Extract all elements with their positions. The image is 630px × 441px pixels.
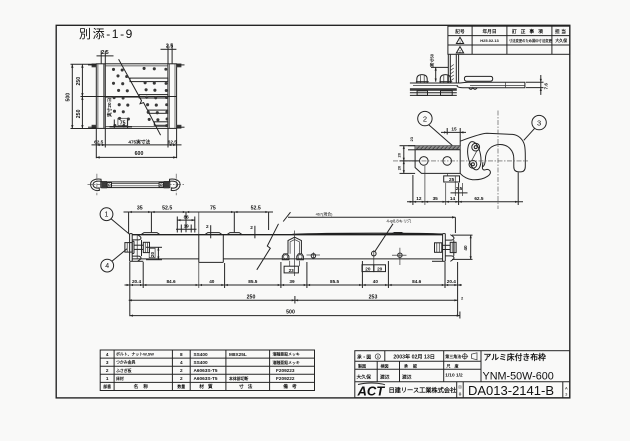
svg-text:253: 253 — [369, 294, 378, 300]
svg-text:85.5: 85.5 — [248, 279, 258, 284]
svg-text:500: 500 — [286, 310, 295, 316]
balloon 1 — [100, 208, 130, 235]
company name — [389, 387, 458, 395]
dim 467(現合) — [283, 211, 455, 233]
svg-text:35: 35 — [137, 206, 143, 212]
plate top dim 2.5 left — [97, 50, 114, 64]
center catch arch — [288, 231, 301, 277]
svg-text:1: 1 — [106, 376, 109, 381]
svg-text:名称: 名称 — [134, 383, 153, 390]
svg-text:40: 40 — [209, 279, 215, 284]
hook slotted link plate — [466, 141, 483, 171]
plate rotated label 実寸203 — [106, 97, 113, 117]
svg-text:20: 20 — [365, 266, 371, 271]
left fitting dim 20 — [146, 247, 162, 259]
svg-text:1/10 1/2: 1/10 1/2 — [445, 373, 463, 379]
title block product name — [483, 352, 554, 383]
svg-text:3: 3 — [565, 392, 568, 397]
sheet size A3 — [565, 386, 568, 397]
svg-text:M8X25L: M8X25L — [229, 352, 247, 357]
plate holes — [112, 67, 169, 128]
svg-text:20: 20 — [397, 152, 402, 157]
rivet hole right with leader 4-φ8.8キリ穴 — [372, 218, 413, 257]
svg-text:62.5: 62.5 — [474, 196, 484, 201]
svg-text:4-φ8.8キリ穴: 4-φ8.8キリ穴 — [387, 218, 413, 225]
company logo ACT — [357, 383, 386, 398]
svg-text:1: 1 — [459, 40, 461, 44]
balloon 3 — [524, 115, 547, 140]
svg-text:2: 2 — [250, 225, 253, 230]
hook centerlines — [393, 111, 528, 210]
hook dim 15 — [441, 127, 466, 146]
svg-text:2: 2 — [461, 295, 464, 300]
document title 別添-1-9 — [79, 27, 134, 41]
svg-text:1: 1 — [105, 212, 109, 219]
svg-text:250: 250 — [76, 109, 82, 118]
svg-text:467(現合): 467(現合) — [316, 211, 334, 216]
hook detail bracket plate — [415, 146, 460, 174]
svg-text:製図: 製図 — [357, 362, 366, 368]
top view right clamp — [159, 181, 169, 188]
svg-text:部番: 部番 — [103, 384, 111, 389]
svg-text:20.4: 20.4 — [447, 279, 457, 284]
hook dims 20/20 left — [397, 146, 420, 174]
svg-text:20.4: 20.4 — [132, 279, 142, 284]
svg-text:250: 250 — [247, 294, 256, 300]
svg-text:3: 3 — [106, 360, 109, 365]
svg-text:寸法変更のため図中寸法変更: 寸法変更のため図中寸法変更 — [509, 38, 553, 43]
svg-text:20: 20 — [150, 251, 155, 257]
rivet hole far right — [392, 248, 407, 265]
svg-text:アルミ床付き布枠: アルミ床付き布枠 — [484, 352, 546, 362]
svg-text:52.5: 52.5 — [251, 206, 261, 212]
svg-text:訂正事項: 訂正事項 — [512, 28, 547, 35]
svg-text:DA013-2141-B: DA013-2141-B — [468, 383, 554, 398]
revision row 1 — [456, 37, 568, 44]
svg-text:2.5: 2.5 — [456, 186, 463, 191]
title block row1 — [357, 352, 477, 360]
svg-text:40: 40 — [373, 279, 379, 284]
title block row3 names — [357, 373, 463, 381]
svg-text:寸法: 寸法 — [239, 383, 256, 390]
svg-text:4: 4 — [180, 360, 183, 365]
border frame — [56, 25, 570, 398]
svg-text:YNM-50W-600: YNM-50W-600 — [483, 371, 554, 383]
title block grid — [355, 351, 570, 398]
svg-text:25: 25 — [449, 177, 455, 182]
svg-text:39: 39 — [289, 279, 295, 284]
svg-text:20: 20 — [397, 165, 402, 170]
svg-text:85.5: 85.5 — [330, 279, 340, 284]
side view vertical frame member — [448, 55, 458, 83]
svg-text:実寸50: 実寸50 — [429, 53, 436, 67]
svg-text:実寸20ヨ: 実寸20ヨ — [106, 97, 113, 117]
top view left hook — [88, 174, 107, 195]
svg-text:14: 14 — [450, 196, 456, 201]
svg-text:大久保: 大久保 — [555, 37, 568, 43]
side view vertical dim 実寸50 — [429, 53, 449, 81]
svg-text:475実寸法: 475実寸法 — [128, 138, 150, 145]
svg-text:図: 図 — [458, 385, 461, 389]
balloon 2 — [418, 111, 453, 145]
svg-text:ふさぎ板: ふさぎ板 — [116, 368, 132, 373]
side view bolt 2 — [439, 75, 452, 83]
svg-text:2.5: 2.5 — [101, 50, 108, 56]
svg-text:床材: 床材 — [115, 376, 124, 381]
svg-text:7.6: 7.6 — [544, 83, 549, 90]
dim 20 20 boxes — [362, 256, 386, 272]
svg-text:数量: 数量 — [176, 384, 185, 389]
hook bolts — [469, 143, 480, 168]
svg-text:備考: 備考 — [283, 383, 300, 390]
svg-text:84.6: 84.6 — [166, 279, 176, 284]
parts table row 1 — [106, 376, 295, 381]
thickness labels 2 — [206, 224, 255, 238]
svg-text:40: 40 — [463, 245, 468, 251]
svg-text:F209223: F209223 — [276, 368, 295, 373]
svg-text:溶融亜鉛メッキ: 溶融亜鉛メッキ — [273, 352, 300, 357]
plate top dim 2.5 right — [161, 44, 177, 64]
parts table grid — [100, 350, 314, 391]
revision table — [448, 26, 570, 54]
side view strip right — [457, 76, 525, 89]
svg-text:500: 500 — [66, 93, 72, 102]
hook detail bracket holes — [420, 157, 452, 166]
hook dim 23 rotated — [408, 136, 415, 150]
left end bolt and nuts — [125, 241, 150, 253]
svg-text:ボルト、ナットW,SW: ボルト、ナットW,SW — [116, 352, 154, 357]
svg-text:A6063S-T5: A6063S-T5 — [194, 376, 218, 381]
elevation top dim row 35/52.5/75/52.5 — [124, 206, 274, 235]
revision row 2 — [456, 47, 463, 54]
balloon 4 — [101, 249, 127, 272]
svg-text:35: 35 — [433, 196, 439, 201]
elevation bottom dim row1 — [125, 261, 463, 316]
elevation bottom dim row2 250/253 — [129, 294, 464, 303]
svg-text:4: 4 — [106, 352, 109, 357]
plate dim 75 — [110, 118, 133, 128]
parts table header — [103, 383, 300, 390]
svg-text:4: 4 — [105, 263, 109, 270]
svg-text:別添-1-9: 別添-1-9 — [79, 27, 134, 41]
svg-text:2003年 02月 13日: 2003年 02月 13日 — [393, 352, 435, 360]
svg-text:承認: 承認 — [403, 362, 422, 368]
side view bar plates — [410, 83, 460, 95]
parts table row 2 — [106, 368, 295, 373]
svg-text:75: 75 — [210, 206, 216, 212]
svg-text:2: 2 — [106, 368, 109, 373]
svg-text:19: 19 — [184, 224, 190, 229]
elevation beam body — [132, 235, 443, 259]
svg-text:250: 250 — [76, 77, 82, 86]
elevation beam top bumps — [141, 233, 443, 235]
center catch bolts — [282, 254, 303, 260]
svg-text:承・図: 承・図 — [357, 353, 371, 360]
hook dim 25 boxed — [444, 173, 460, 182]
svg-text:75: 75 — [120, 120, 126, 126]
top view right hook — [167, 174, 186, 195]
svg-text:F209222: F209222 — [276, 376, 295, 381]
svg-text:2: 2 — [459, 49, 461, 53]
svg-text:62.5: 62.5 — [94, 139, 104, 144]
svg-text:第三角法: 第三角法 — [445, 353, 461, 359]
svg-text:SS400: SS400 — [194, 360, 208, 365]
plate left dims 250/250/500 — [66, 64, 97, 128]
dim 86 and 19 — [176, 214, 197, 232]
center dim 23 — [284, 261, 299, 273]
svg-text:SS400: SS400 — [194, 352, 208, 357]
svg-text:大久保: 大久保 — [357, 374, 372, 381]
svg-text:2: 2 — [423, 114, 427, 123]
svg-text:15: 15 — [451, 127, 457, 132]
svg-text:62.5: 62.5 — [168, 139, 178, 144]
plate bottom dim 600 — [96, 151, 176, 158]
elevation bottom notch box — [199, 235, 224, 263]
svg-text:600: 600 — [135, 151, 144, 157]
hook bottom dims 12/35/14/62.5 — [407, 166, 523, 205]
svg-text:3: 3 — [537, 118, 541, 127]
svg-text:52.5: 52.5 — [162, 206, 172, 212]
svg-text:86: 86 — [184, 214, 190, 219]
svg-text:8: 8 — [377, 355, 379, 359]
side view bolt 1 — [416, 75, 429, 83]
hook body — [460, 133, 525, 179]
parts table row 3 — [106, 360, 300, 365]
svg-text:渡辺: 渡辺 — [402, 374, 412, 381]
svg-text:本体部切断: 本体部切断 — [229, 376, 249, 381]
svg-text:ACT: ACT — [357, 384, 386, 399]
svg-text:検図: 検図 — [381, 362, 389, 368]
svg-text:23: 23 — [289, 268, 295, 273]
left end bracket — [130, 234, 144, 262]
rivet hole left — [307, 252, 321, 259]
top assembly view bar — [101, 182, 170, 188]
svg-text:A6063S-T5: A6063S-T5 — [194, 368, 218, 373]
plate diagonal break line — [119, 59, 161, 135]
svg-text:12: 12 — [416, 196, 422, 201]
svg-text:23: 23 — [409, 136, 414, 141]
svg-text:2: 2 — [180, 376, 183, 381]
right end bracket and clamp — [432, 234, 454, 262]
plate bottom dims 62.5 / 475 / 62.5 — [92, 129, 182, 159]
svg-text:尺度: 尺度 — [447, 362, 463, 368]
svg-text:2: 2 — [206, 224, 209, 229]
svg-text:日建リース工業株式会社: 日建リース工業株式会社 — [389, 387, 458, 395]
title block row2 headers — [357, 362, 463, 368]
drawing number cell — [458, 383, 554, 398]
svg-text:A: A — [565, 386, 568, 391]
svg-text:84.6: 84.6 — [412, 279, 422, 284]
svg-text:2: 2 — [180, 368, 183, 373]
elevation bottom dim row3 500 — [130, 310, 460, 319]
svg-text:20: 20 — [377, 266, 383, 271]
svg-text:記号: 記号 — [455, 28, 465, 35]
parts table row 4 — [106, 352, 300, 357]
svg-text:番: 番 — [458, 391, 461, 396]
svg-text:つかみ金具: つかみ金具 — [116, 360, 136, 365]
svg-text:8: 8 — [180, 352, 183, 357]
hook dim 2.5 — [451, 177, 468, 197]
svg-text:H25.02.13: H25.02.13 — [480, 38, 499, 43]
plate slats — [130, 78, 168, 125]
svg-text:渡辺: 渡辺 — [380, 374, 390, 381]
right end bolt and nuts — [435, 242, 457, 252]
svg-text:溶融亜鉛メッキ: 溶融亜鉛メッキ — [273, 360, 300, 365]
side view bolt feet — [417, 91, 452, 96]
top view left clamp — [101, 181, 111, 188]
svg-text:年月日: 年月日 — [482, 28, 496, 35]
plate plan view outline — [96, 64, 176, 129]
right dim 40 vertical — [452, 235, 473, 259]
side view dim 76 — [526, 75, 549, 95]
elevation break line — [257, 224, 279, 270]
svg-text:材質: 材質 — [198, 383, 216, 390]
svg-text:担当: 担当 — [555, 28, 567, 35]
plate corner tabs — [88, 64, 185, 129]
plate mid seam — [96, 97, 176, 98]
svg-text:2.5: 2.5 — [166, 44, 173, 50]
